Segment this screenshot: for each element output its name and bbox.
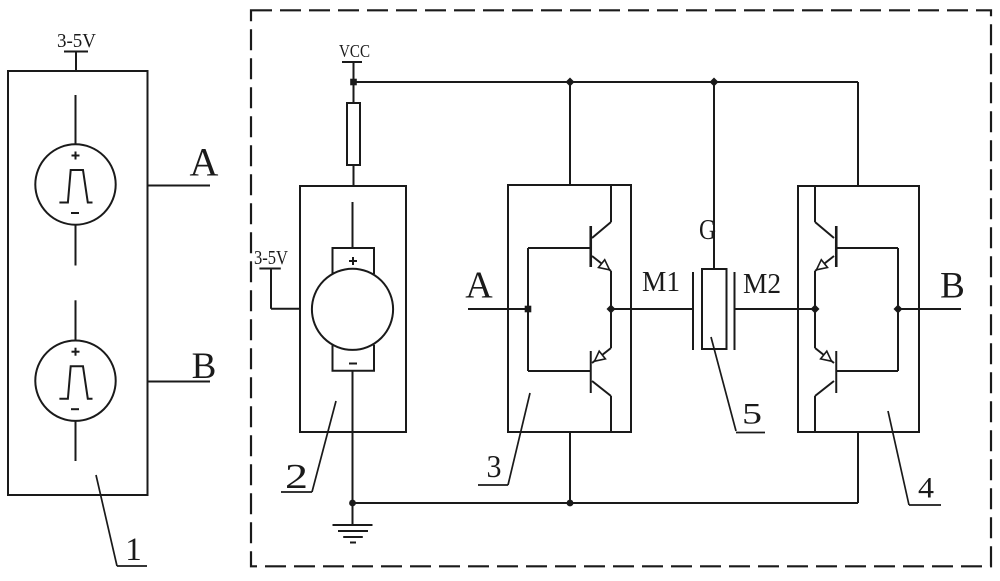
supply label 3-5V (box 2) — [254, 247, 300, 309]
wire (base bus of box 3) — [528, 248, 590, 371]
ground — [333, 503, 373, 543]
leader label 4 — [888, 411, 941, 505]
node VCC rail junction (square dot) — [350, 79, 357, 86]
transistor Q1 (NPN, box 3 top) — [591, 185, 611, 309]
svg-text:1: 1 — [125, 532, 142, 568]
transistor Q4 (PNP, box 4 bottom) — [815, 309, 836, 432]
leader label 3 — [478, 393, 530, 485]
box 4 (inverter/buffer block) — [798, 186, 919, 432]
wire (VCC top rail) — [354, 81, 859, 83]
wire (ground rail) — [353, 502, 859, 504]
wire (box 2 to ground rail) — [352, 432, 354, 503]
node rail junction above box 3 (diamond) — [566, 78, 575, 87]
wire (lead below PS1) — [75, 225, 77, 266]
svg-text:A: A — [465, 265, 493, 307]
node B (output of box 4) — [898, 266, 965, 310]
svg-text:3-5V: 3-5V — [254, 247, 288, 269]
pulse source PS1 — [35, 144, 115, 224]
svg-text:2: 2 — [285, 457, 308, 496]
svg-text:A: A — [190, 140, 219, 185]
box 1 (pulse generator unit) — [8, 71, 148, 495]
box 3 (inverter/buffer block) — [508, 185, 631, 432]
node B (output terminal B of unit 1) — [148, 346, 217, 387]
pulse source PS2 — [35, 341, 115, 421]
node ground junction below box 2 (dot) — [349, 500, 356, 507]
svg-text:M2: M2 — [743, 269, 781, 300]
node M1 (diamond junction) — [607, 305, 616, 314]
wire (box 3 to ground rail) — [569, 432, 571, 503]
svg-text:5: 5 — [742, 398, 762, 431]
leader label 2 — [281, 401, 336, 496]
svg-text:4: 4 — [918, 472, 934, 505]
svg-text:M1: M1 — [642, 267, 680, 298]
wire M1 — [611, 308, 693, 310]
node A (input to box 3) — [465, 265, 528, 310]
node rail junction above crystal (diamond) — [710, 78, 719, 87]
power symbol VCC — [339, 41, 370, 82]
wire (lead above pulse source PS2) — [75, 300, 77, 340]
crystal X1 (component 5) — [693, 269, 735, 350]
svg-text:VCC: VCC — [339, 41, 370, 61]
wire (lead above pulse source PS1) — [75, 95, 77, 145]
transistor Q2 (PNP, box 3 bottom) — [591, 309, 611, 432]
svg-text:B: B — [940, 266, 965, 307]
wire (box 4 to ground rail) — [857, 432, 859, 503]
node ground junction below box 3 (dot) — [567, 500, 574, 507]
module boundary (dashed box) — [251, 10, 991, 566]
wire (rail down to crystal) — [713, 82, 715, 269]
node B junction (diamond, box 4 output) — [894, 305, 903, 314]
DC source symbol inside box 2 — [312, 202, 393, 432]
node A (output terminal A of unit 1) — [148, 140, 219, 186]
leader label 5 — [711, 337, 765, 433]
wire (base bus of box 4) — [836, 248, 898, 371]
wire M2 — [735, 308, 816, 310]
supply label 3-5V (unit 1) — [57, 30, 97, 71]
svg-text:3: 3 — [487, 448, 502, 484]
wire (rail down to box 3 top) — [569, 82, 571, 185]
wire (rail corner down to box 4) — [857, 82, 859, 186]
node input junction box 3 (square dot) — [525, 306, 532, 313]
leader label 1 — [96, 475, 147, 568]
node M2 junction (diamond, box 4 input) — [811, 305, 820, 314]
wire (lead below PS2) — [75, 421, 77, 461]
svg-text:G: G — [699, 215, 716, 246]
box 2 (oscillator drive block) — [300, 186, 406, 432]
resistor R1 — [347, 82, 360, 186]
svg-text:3-5V: 3-5V — [57, 30, 97, 52]
transistor Q3 (NPN, box 4 top) — [815, 186, 836, 309]
